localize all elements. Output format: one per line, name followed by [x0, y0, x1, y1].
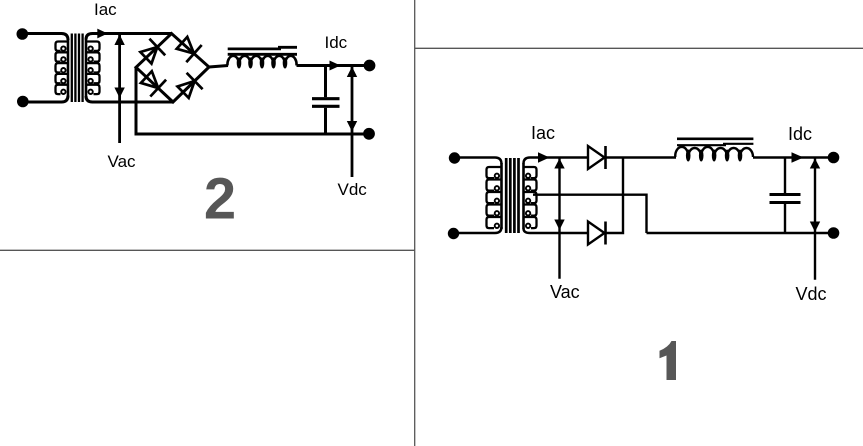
- terminal dot left top (circuit 1): [449, 152, 460, 163]
- capacitor C2 (circuit 1): [784, 158, 786, 194]
- Idc arrow (circuit 2): [330, 61, 341, 71]
- Vac measurement line (circuit 1): [558, 158, 560, 279]
- wire: secondary top (circuit 1): [524, 158, 589, 164]
- transformer T1 core: [71, 34, 73, 103]
- wire: left top lead (circuit 1): [455, 158, 502, 165]
- wire: bridge minus to bottom rail: [136, 67, 369, 134]
- bridge diode D1 (left-top): [140, 47, 157, 64]
- wire: top diode to inductor (circuit 1): [606, 156, 677, 158]
- wire: secondary bottom to bridge: [86, 96, 173, 102]
- diode D6 (bottom, circuit 1): [588, 222, 605, 245]
- terminal dot output bottom (circuit 1): [828, 227, 840, 239]
- wire: center tap: [533, 195, 647, 233]
- Idc arrow (circuit 1): [792, 152, 804, 162]
- transformer T1 secondary winding: [85, 39, 88, 97]
- inductor L1 (circuit 2): [227, 56, 296, 66]
- terminal dot left bottom (circuit 1): [448, 228, 459, 239]
- Vac measurement line (circuit 2): [118, 34, 121, 144]
- svg-text:2: 2: [204, 167, 236, 232]
- bridge diode D2 (top-right): [177, 37, 194, 54]
- terminal dot output top (circuit 2): [364, 60, 376, 72]
- wire: left bottom lead (circuit 1): [454, 227, 502, 233]
- wire: diode outputs link: [606, 158, 624, 234]
- Iac arrow (circuit 1): [538, 152, 550, 162]
- bottom rail (circuit 1): [647, 232, 834, 234]
- capacitor C1 (circuit 2): [324, 66, 327, 98]
- inductor L2 core lines: [677, 138, 753, 141]
- bridge diode D3 (left-bottom): [141, 71, 158, 88]
- bridge diode D4 (bottom-right): [178, 81, 195, 98]
- Vdc measurement line (circuit 2): [351, 66, 354, 178]
- svg-text:Vdc: Vdc: [796, 284, 827, 304]
- Iac arrow (circuit 2): [97, 29, 107, 39]
- terminal dot output bottom (circuit 2): [363, 128, 375, 140]
- wire: left top lead: [22, 34, 68, 41]
- label 1: [660, 341, 677, 380]
- svg-text:Vac: Vac: [108, 152, 137, 171]
- diode D5 (top, circuit 1): [588, 146, 605, 169]
- wire: secondary top to bridge: [86, 34, 172, 40]
- wire: bridge plus to inductor: [209, 66, 228, 68]
- inductor L2 (circuit 1): [675, 147, 753, 157]
- transformer T2 secondary winding: [522, 163, 525, 229]
- frame divider vertical: [414, 0, 416, 446]
- transformer T2 primary winding: [500, 163, 503, 229]
- svg-text:Vdc: Vdc: [338, 180, 368, 199]
- svg-text:Idc: Idc: [788, 124, 812, 144]
- frame divider horizontal left: [0, 249, 415, 251]
- wire: secondary bottom (circuit 1): [524, 229, 589, 234]
- inductor L1 core lines: [228, 48, 281, 51]
- Vdc measurement line (circuit 1): [814, 158, 816, 280]
- svg-text:Iac: Iac: [531, 123, 555, 143]
- bridge rectifier wires (diamond): [136, 34, 209, 103]
- frame divider horizontal right: [415, 47, 863, 49]
- terminal dot output top (circuit 1): [828, 152, 840, 164]
- transformer T1 primary winding: [67, 39, 70, 97]
- wire: inductor to output (circuit 1): [753, 156, 834, 158]
- svg-text:Iac: Iac: [94, 0, 117, 19]
- svg-text:Idc: Idc: [325, 33, 348, 52]
- terminal dot left top: [17, 28, 29, 40]
- wire: left bottom lead: [23, 96, 68, 103]
- terminal dot left bottom: [17, 96, 29, 108]
- transformer T2 core: [505, 158, 508, 233]
- wire: inductor to output: [297, 64, 370, 67]
- svg-text:Vac: Vac: [550, 282, 580, 302]
